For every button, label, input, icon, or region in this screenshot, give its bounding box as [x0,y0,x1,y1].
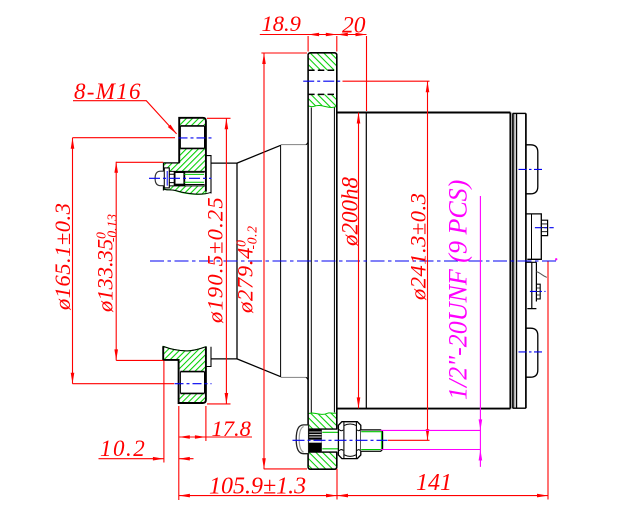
wheel flange outline bottom [163,346,206,403]
thread dim line [479,196,481,467]
lower stud shank [322,430,339,452]
cone top [237,145,281,163]
end cap right face [525,113,527,408]
lower boss centerline [519,351,543,353]
ring hole top dashed edges [308,70,337,94]
dim 10.2 lines [99,458,194,460]
svg-text:8-M16: 8-M16 [74,79,142,104]
lower plug centerline [530,290,546,292]
wheel bolt (top): washer [164,168,169,188]
ring bottom hole edges [308,429,337,452]
lower fitting block [527,262,537,308]
wheel bolt thread lines green [184,174,204,182]
dim o241.3 line [427,81,429,440]
wheel bolt head dome [155,171,164,186]
ring upper section hatch [308,53,337,108]
svg-text:141: 141 [416,470,452,496]
ring inner line right [333,108,335,413]
cone bottom [237,359,281,377]
lower fitting plug [536,284,540,299]
svg-text:ø200h8: ø200h8 [338,177,363,248]
wheel bolt thread-start block [175,172,185,185]
M16 hole top: edges [180,126,204,148]
ring bottom edge [308,467,337,470]
dim o190.5 line [225,118,227,404]
lower stud head dome [296,425,308,454]
arrowheads [308,33,319,37]
stud hole top edges [164,171,206,186]
body right inner line [512,113,514,408]
flange face step x211 bottom [206,347,211,367]
body front plate line [365,113,367,409]
hex nut facet lines [344,422,357,458]
end cap bottom edge [513,407,526,409]
hub barrel OD thin gray lines [281,144,306,146]
body right face [509,113,511,409]
dim 105.9/141 line [179,495,548,497]
upper boss centerline [519,168,543,170]
svg-text:18.9: 18.9 [262,11,301,36]
wheel bolt thread lines black [184,172,204,184]
hub-to-ring fillet top [306,142,308,145]
svg-text:ø165.1±0.3: ø165.1±0.3 [50,203,75,311]
dim o133.35 line [115,162,117,361]
wheel bolt shank lines [169,174,177,182]
upper plug block [527,214,542,259]
M16 top hole centerline [179,137,212,139]
dim o279.4 line [263,53,265,469]
upper hex plug facets [541,224,547,232]
upper plug block inner line [531,214,533,259]
counterbore step top [164,162,180,164]
hub-to-ring fillet bottom [306,377,308,380]
flange break wave top [164,189,212,194]
hex nut chamfer arcs [339,424,360,456]
ring lower section hatch [308,413,337,470]
svg-text:10.2: 10.2 [100,436,146,461]
threaded end [361,430,383,451]
hub weld seam vertical [280,146,282,377]
M16 hole bottom: edges [180,372,204,394]
ring inner line left [310,108,312,413]
ext lines top [308,36,366,111]
flange upper section hatch [164,118,206,195]
svg-text:1/2"-20UNF (9 PCS): 1/2"-20UNF (9 PCS) [444,180,473,400]
magenta arrowheads [479,419,483,430]
bolt seat face top [163,163,165,191]
wheel flange outline top [179,118,206,192]
white hole cutouts [179,126,206,148]
svg-text:20: 20 [342,13,366,39]
dim o165.1 line [72,138,74,384]
thread dim ext lines [381,430,481,449]
body bottom edge [337,408,511,410]
main axis centerline [150,260,557,262]
end cap inner line [516,113,518,408]
lower fitting break curve [536,272,546,278]
svg-text:17.8: 17.8 [212,416,251,441]
lower stud knurl section [309,429,322,452]
M16 bottom hole centerline [175,383,212,385]
ring top edge [308,53,337,56]
svg-text:ø190.5±0.25: ø190.5±0.25 [203,196,228,324]
wheel bolt vertical tick [166,171,168,186]
wheel bolt centerline [149,177,212,179]
flange break wave bottom [163,346,206,350]
ring top hole centerline [303,80,342,82]
svg-text:ø241.3±0.3: ø241.3±0.3 [406,193,431,301]
end cap left line [513,113,515,408]
upper plug centerline [535,227,554,229]
spigot silhouette [211,163,237,359]
svg-text:105.9±1.3: 105.9±1.3 [209,474,306,500]
flange lower section hatch [163,346,206,403]
lower stud head shading arc [299,427,303,453]
end cap top edge [513,112,526,114]
upper port boss [526,145,538,194]
flange face step x211 top [206,156,211,194]
dim 8-M16 underline and leader [73,101,177,134]
dim 17.8 line [179,436,252,438]
upper hex plug [541,220,547,235]
dim 18.9/20 line [260,34,367,36]
lower fitting plug threads [536,288,540,295]
lower stud centerline [293,439,388,441]
body top edge [337,112,511,114]
ring left face [307,55,309,466]
ring right face [336,55,338,466]
dim o200h8 line [358,113,360,409]
lower port boss [526,328,538,377]
hex nut [338,422,360,459]
